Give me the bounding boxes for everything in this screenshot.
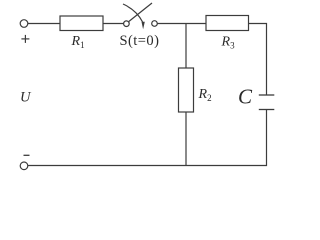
wire: R1 to switch left contact: [103, 23, 124, 25]
minus polarity mark: [24, 154, 30, 156]
wire: top-left terminal to R1: [28, 23, 60, 25]
capacitor C bottom plate: [259, 109, 275, 111]
terminal - (bottom-left): [20, 162, 28, 170]
svg-text:U: U: [20, 90, 32, 106]
switch S left contact: [124, 21, 130, 27]
switch S closing arrow head: [142, 22, 145, 29]
switch S right contact: [152, 21, 158, 27]
wire: R3 to top-right corner down to capacitor: [249, 24, 267, 96]
plus polarity mark: [21, 38, 29, 40]
terminal + (top-left): [20, 20, 28, 28]
wire: capacitor to bottom wire: [28, 110, 267, 166]
svg-text:R2: R2: [198, 87, 212, 103]
wire: node A to R3: [186, 23, 206, 25]
switch S closing arrow: [123, 4, 143, 22]
resistor R2: [179, 68, 194, 112]
svg-text:R1: R1: [71, 34, 85, 50]
svg-text:R3: R3: [221, 35, 236, 51]
svg-text:C: C: [238, 85, 253, 109]
wire: R2 to bottom wire: [185, 112, 187, 166]
capacitor C top plate: [259, 94, 275, 96]
svg-text:S(t=0): S(t=0): [120, 33, 160, 49]
switch S blade: [129, 3, 152, 22]
resistor R3: [206, 16, 249, 31]
wire: node A down to R2: [185, 24, 187, 69]
resistor R1: [60, 16, 103, 31]
wire: switch to node A: [157, 23, 186, 25]
